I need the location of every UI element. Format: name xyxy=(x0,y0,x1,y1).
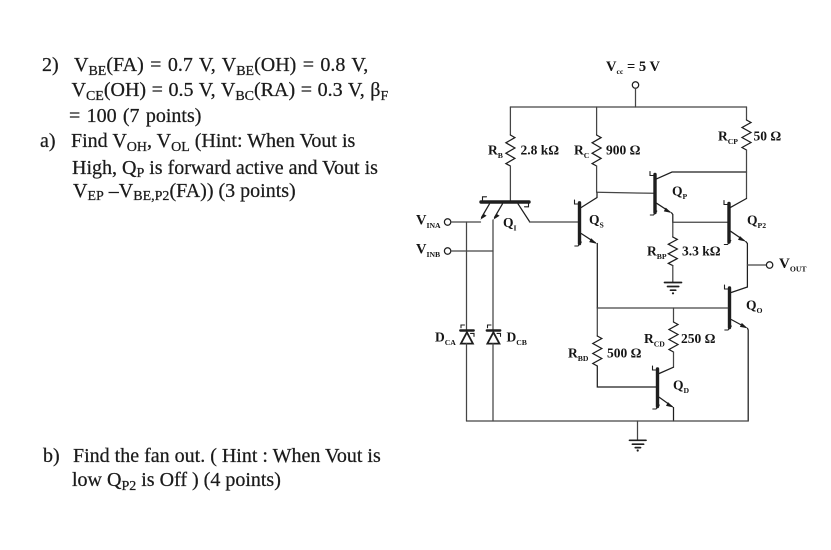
transistor QD emitter xyxy=(659,397,674,421)
transistor QO bar xyxy=(725,285,732,330)
wire VINB xyxy=(451,250,493,252)
wire DCA to rail xyxy=(466,344,468,421)
label RCP xyxy=(718,129,738,147)
wire RCP top xyxy=(746,107,748,120)
transistor QP emitter xyxy=(657,203,673,222)
label QS xyxy=(589,212,604,230)
transistor QI collector lead xyxy=(518,204,530,222)
label VINA xyxy=(416,213,441,231)
transistor QI emitter 1 xyxy=(480,204,489,220)
resistor RBD xyxy=(593,336,602,366)
wire RB bottom xyxy=(509,166,511,201)
svg-text:QD: QD xyxy=(673,378,690,396)
label QP xyxy=(672,184,688,202)
svg-text:2.8 kΩ: 2.8 kΩ xyxy=(521,143,560,158)
label RB xyxy=(488,143,503,161)
svg-text:VINA: VINA xyxy=(416,213,441,231)
wire ground rail xyxy=(467,420,749,422)
transistor QP2 bar xyxy=(724,201,731,245)
wire RBD top xyxy=(596,308,598,336)
wire DCB to rail xyxy=(492,344,494,421)
label VINB xyxy=(416,242,440,260)
resistor RCP xyxy=(742,120,751,150)
resistor RB xyxy=(506,135,515,166)
label Vout xyxy=(779,256,807,274)
svg-text:RBP: RBP xyxy=(647,244,667,262)
wire Vcc stub xyxy=(635,88,637,107)
svg-text:VINB: VINB xyxy=(416,242,440,260)
Vcc terminal circle xyxy=(632,82,638,88)
svg-text:RC: RC xyxy=(574,143,589,161)
label RC value xyxy=(606,143,641,158)
wire ground stub xyxy=(637,421,639,440)
ground main xyxy=(630,440,647,451)
Vcc label xyxy=(606,59,660,76)
diode DCA xyxy=(460,325,474,344)
svg-text:RCP: RCP xyxy=(718,129,738,147)
wire input B vertical xyxy=(492,220,494,330)
label QO xyxy=(746,298,763,316)
resistor RC xyxy=(592,135,601,166)
svg-text:500 Ω: 500 Ω xyxy=(607,346,642,361)
problem text block xyxy=(42,55,59,75)
svg-text:250 Ω: 250 Ω xyxy=(681,331,716,346)
svg-text:QS: QS xyxy=(589,212,604,230)
svg-text:QP2: QP2 xyxy=(747,213,766,231)
label DCA xyxy=(435,330,456,348)
svg-text:VOUT: VOUT xyxy=(779,256,807,274)
transistor QO collector xyxy=(731,287,747,293)
svg-text:DCB: DCB xyxy=(507,330,527,348)
transistor QP2 collector xyxy=(731,199,747,208)
wire RCD bottom xyxy=(673,352,675,367)
wire node to QP base xyxy=(597,192,654,193)
wire RC top xyxy=(596,107,598,135)
svg-text:900 Ω: 900 Ω xyxy=(606,143,641,158)
label DCB xyxy=(507,330,527,348)
wire input A vertical xyxy=(466,222,468,330)
wire RBD bottom xyxy=(597,366,656,387)
svg-text:DCA: DCA xyxy=(435,330,456,348)
transistor QI multi-emitter bar xyxy=(481,197,529,207)
wire QP emitter to QP2 base xyxy=(673,221,728,223)
resistor RCD xyxy=(669,322,678,352)
wire RBP top xyxy=(672,222,674,237)
transistor QP bar xyxy=(650,172,657,216)
svg-text:RCD: RCD xyxy=(644,331,665,349)
svg-text:RBD: RBD xyxy=(568,346,589,364)
resistor RBP xyxy=(668,237,677,266)
label RCP value xyxy=(754,129,782,144)
terminal Vout xyxy=(766,262,772,268)
transistor QP2 emitter xyxy=(731,231,748,287)
transistor QO emitter xyxy=(731,320,748,422)
wire RCP bottom xyxy=(746,150,748,198)
label RCD xyxy=(644,331,665,349)
terminal VINA xyxy=(444,219,450,225)
transistor QS emitter xyxy=(581,234,597,309)
transistor QS collector xyxy=(581,192,597,207)
wire RB top xyxy=(509,107,511,135)
transistor QP collector xyxy=(657,172,747,179)
wire VINA xyxy=(451,221,481,223)
transistor QS bar xyxy=(575,200,582,246)
svg-text:3.3 kΩ: 3.3 kΩ xyxy=(682,244,721,259)
svg-text:RB: RB xyxy=(488,143,503,161)
svg-text:50 Ω: 50 Ω xyxy=(754,129,782,144)
wire RCD top xyxy=(673,308,675,322)
wire QI collector to QS base xyxy=(530,221,578,223)
label QD xyxy=(673,378,690,396)
diode DCB xyxy=(487,325,501,344)
transistor QD bar xyxy=(653,366,660,409)
transistor QI emitter 2 xyxy=(493,204,502,220)
svg-text:QI: QI xyxy=(503,215,517,233)
svg-text:Vcc = 5 V: Vcc = 5 V xyxy=(606,59,660,76)
label RC xyxy=(574,143,589,161)
label RBD xyxy=(568,346,589,364)
wire Vout xyxy=(747,264,766,266)
wire QO base rail xyxy=(597,307,728,309)
label RBD value xyxy=(607,346,642,361)
svg-text:QP: QP xyxy=(672,184,688,202)
svg-text:QO: QO xyxy=(746,298,763,316)
label RCD value xyxy=(681,331,716,346)
wire RBP bottom xyxy=(672,266,674,282)
label QI xyxy=(503,215,517,233)
label RB value xyxy=(521,143,560,158)
wire RC bottom xyxy=(596,166,598,192)
wire top rail xyxy=(510,106,746,108)
label QP2 xyxy=(747,213,766,231)
transistor QD collector xyxy=(659,367,673,373)
terminal VINB xyxy=(444,248,450,254)
label RBP xyxy=(647,244,667,262)
label RBP value xyxy=(682,244,721,259)
ground RBP xyxy=(665,283,682,295)
